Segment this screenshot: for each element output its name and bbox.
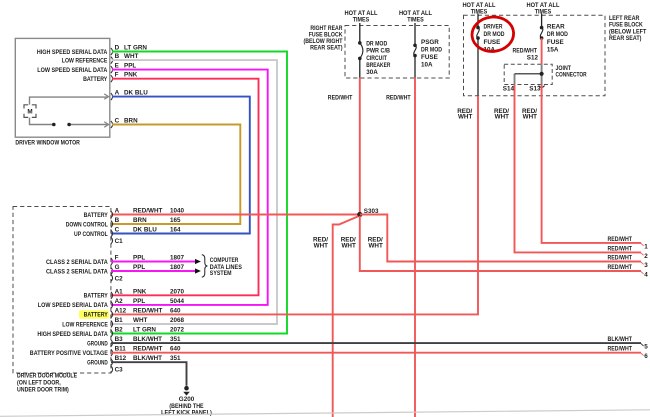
svg-text:DR MOD: DR MOD	[421, 46, 442, 53]
node S13	[529, 86, 544, 93]
pin G (PPL 1807) of driver door module	[46, 264, 185, 275]
wire LT GRN, motor pin D to module pin B2	[111, 52, 287, 334]
label RED/WHT row 6 at page edge	[608, 346, 649, 360]
svg-text:PPL: PPL	[133, 264, 145, 271]
pin B (BRN 165) of driver door module	[66, 217, 181, 228]
wire RED/WHT driver fuse down then left to module pin A12	[111, 96, 478, 315]
motor M1	[24, 105, 36, 118]
svg-text:REAR SEAT): REAR SEAT)	[609, 35, 641, 42]
wire RED/WHT psgr fuse down off page	[414, 78, 416, 417]
svg-text:DRIVER: DRIVER	[484, 24, 503, 31]
svg-text:DOWN CONTROL: DOWN CONTROL	[66, 221, 108, 228]
svg-text:DK BLU: DK BLU	[133, 227, 157, 234]
wire PPL pin G to computer data lines	[111, 268, 201, 273]
svg-text:PWR C/B: PWR C/B	[366, 48, 390, 55]
svg-text:UNDER DOOR TRIM): UNDER DOOR TRIM)	[17, 387, 69, 394]
svg-text:RED/WHT: RED/WHT	[386, 95, 411, 102]
node HOT AT ALL TIMES (driver fuse feed)	[462, 2, 495, 16]
svg-text:RED/WHT: RED/WHT	[133, 208, 163, 215]
svg-text:CIRCUIT: CIRCUIT	[366, 55, 387, 62]
driver window motor box	[15, 38, 110, 146]
svg-text:C2: C2	[115, 275, 124, 282]
svg-text:WHT: WHT	[368, 243, 382, 250]
svg-text:PPL: PPL	[133, 298, 145, 305]
svg-text:S14: S14	[503, 86, 515, 93]
joint connector box	[504, 64, 587, 84]
svg-text:C3: C3	[115, 367, 124, 374]
svg-text:B: B	[115, 217, 120, 224]
svg-text:B: B	[115, 53, 120, 60]
svg-text:PNK: PNK	[124, 72, 138, 79]
svg-text:DR MOD: DR MOD	[547, 31, 568, 38]
svg-text:PPL: PPL	[133, 255, 145, 262]
svg-text:DRIVER WINDOW MOTOR: DRIVER WINDOW MOTOR	[15, 140, 80, 147]
svg-text:RED/WHT: RED/WHT	[608, 255, 633, 262]
svg-text:5044: 5044	[170, 298, 185, 305]
svg-text:BATTERY: BATTERY	[83, 76, 108, 83]
splice S303	[357, 208, 379, 217]
svg-text:TIMES: TIMES	[407, 17, 424, 24]
svg-text:LOW SPEED SERIAL DATA: LOW SPEED SERIAL DATA	[38, 302, 108, 309]
svg-text:30A: 30A	[366, 69, 378, 76]
svg-text:6: 6	[644, 353, 648, 360]
svg-text:351: 351	[170, 355, 181, 362]
pin A1 (PNK 2070) of driver door module	[84, 288, 185, 299]
pin E (PPL) of driver window motor	[111, 63, 136, 74]
svg-text:REAR SEAT): REAR SEAT)	[310, 44, 342, 51]
svg-text:164: 164	[170, 227, 181, 234]
wire DK BLU, motor pin A to module pin C	[111, 97, 250, 234]
svg-text:LT GRN: LT GRN	[133, 327, 156, 334]
wire RED/WHT circuit breaker down to splice S303	[359, 78, 361, 214]
svg-text:RED/WHT: RED/WHT	[328, 95, 353, 102]
wire RED/WHT S14 leg to page edge row 2	[515, 85, 642, 253]
svg-text:B3: B3	[115, 336, 124, 343]
svg-text:BLK/WHT: BLK/WHT	[133, 336, 162, 343]
svg-text:C: C	[115, 118, 120, 125]
pin B3 (BLK/WHT 351) of driver door module	[87, 336, 181, 347]
svg-text:RED/WHT: RED/WHT	[513, 48, 538, 55]
svg-text:B12: B12	[115, 355, 127, 362]
label RED/WHT under S14	[494, 108, 509, 121]
svg-text:FUSE: FUSE	[421, 54, 438, 61]
svg-text:HIGH SPEED SERIAL DATA: HIGH SPEED SERIAL DATA	[37, 49, 108, 56]
pin C (BRN) of driver window motor	[111, 118, 138, 129]
svg-text:TIMES: TIMES	[471, 9, 488, 16]
svg-text:HIGH SPEED SERIAL DATA: HIGH SPEED SERIAL DATA	[37, 331, 108, 338]
svg-text:G: G	[115, 264, 120, 271]
label RED/WHT row 1 at page edge	[608, 236, 649, 250]
svg-text:BATTERY POSITIVE VOLTAGE: BATTERY POSITIVE VOLTAGE	[30, 350, 108, 357]
svg-text:RED/WHT: RED/WHT	[608, 346, 633, 353]
svg-text:2070: 2070	[170, 288, 185, 295]
svg-text:F: F	[115, 255, 119, 262]
label RED/WHT row 3 at page edge	[608, 255, 649, 269]
wire BLK/WHT pin B12 to ground G200	[111, 362, 187, 386]
svg-text:B2: B2	[115, 327, 124, 334]
node HOT AT ALL TIMES (rear fuse feed)	[526, 2, 559, 16]
svg-text:RED/WHT: RED/WHT	[608, 245, 633, 252]
svg-text:WHT: WHT	[523, 114, 537, 121]
pin A12 (RED/WHT 640) of driver door module	[79, 307, 181, 318]
svg-text:LOW REFERENCE: LOW REFERENCE	[62, 57, 108, 64]
svg-text:A12: A12	[115, 307, 127, 314]
wire RED/WHT S13 leg to page edge row 1	[542, 85, 641, 243]
svg-text:TIMES: TIMES	[353, 17, 370, 24]
svg-text:DR MOD: DR MOD	[366, 41, 387, 48]
right rear fuse block box	[304, 25, 450, 78]
svg-text:FUSE: FUSE	[484, 39, 501, 46]
svg-text:F: F	[115, 72, 119, 79]
node HOT AT ALL TIMES (psgr fuse feed)	[399, 10, 432, 24]
wire PPL pin F to computer data lines	[111, 259, 201, 264]
svg-text:DR MOD: DR MOD	[484, 31, 505, 38]
label RED/WHT under S13	[522, 108, 537, 121]
svg-text:1807: 1807	[170, 264, 185, 271]
node COMPUTER DATA LINES SYSTEM	[202, 255, 242, 278]
pin B12 (BLK/WHT 351) of driver door module	[87, 355, 181, 366]
wire RED/WHT S303 branch down-left off page	[333, 216, 359, 417]
svg-text:FUSE: FUSE	[547, 39, 564, 46]
svg-text:5: 5	[644, 344, 648, 351]
wire BRN, motor pin C to module pin B	[111, 125, 240, 225]
pin A (DK BLU) of driver window motor	[111, 90, 148, 101]
svg-text:LT GRN: LT GRN	[124, 45, 147, 52]
svg-text:1: 1	[644, 243, 648, 250]
wire RED/WHT S303 branch to page edge row 3	[360, 215, 641, 262]
svg-text:REAR: REAR	[547, 24, 565, 31]
pin C (DK BLU 164) of driver door module	[74, 227, 181, 238]
svg-text:15A: 15A	[547, 46, 559, 53]
svg-text:BATTERY: BATTERY	[84, 293, 109, 300]
svg-text:B11: B11	[115, 346, 127, 353]
label RED/WHT row 2 at page edge	[608, 245, 649, 259]
svg-text:BLK/WHT: BLK/WHT	[133, 355, 162, 362]
left rear fuse block box	[464, 15, 647, 96]
svg-text:1040: 1040	[170, 208, 185, 215]
fuse REAR DR MOD 15A	[540, 14, 568, 54]
svg-text:PPL: PPL	[124, 63, 136, 70]
svg-text:PNK: PNK	[133, 288, 147, 295]
wire BLK/WHT pin B3 to page edge row 5	[111, 342, 641, 344]
svg-text:A: A	[115, 208, 120, 215]
wire RED/WHT S303 branch to page edge row 4	[360, 216, 641, 271]
svg-text:WHT: WHT	[133, 317, 147, 324]
svg-text:BATTERY: BATTERY	[84, 312, 109, 319]
svg-text:LOW SPEED SERIAL DATA: LOW SPEED SERIAL DATA	[37, 67, 107, 74]
pin A2 (PPL 5044) of driver door module	[38, 298, 185, 309]
connector C2 of driver door module	[111, 275, 123, 283]
pin B11 (RED/WHT 640) of driver door module	[30, 346, 181, 357]
label RED/WHT on branch x333	[313, 237, 328, 250]
svg-text:RED/WHT: RED/WHT	[608, 236, 633, 243]
svg-text:D: D	[115, 45, 120, 52]
svg-text:BATTERY: BATTERY	[84, 212, 109, 219]
svg-text:2068: 2068	[170, 317, 185, 324]
svg-text:GROUND: GROUND	[87, 340, 108, 347]
svg-text:BRN: BRN	[133, 217, 147, 224]
svg-text:RED/WHT: RED/WHT	[608, 264, 633, 271]
svg-text:1807: 1807	[170, 255, 185, 262]
driver door module box	[13, 207, 111, 394]
svg-text:WHT: WHT	[495, 114, 509, 121]
svg-text:A2: A2	[115, 298, 124, 305]
svg-text:BREAKER: BREAKER	[366, 62, 391, 69]
pin F (PNK) of driver window motor	[111, 72, 138, 83]
svg-text:BLK/WHT: BLK/WHT	[608, 336, 633, 343]
svg-text:165: 165	[170, 217, 181, 224]
svg-text:4: 4	[644, 271, 648, 278]
label RED/WHT row 4 at page edge	[608, 264, 649, 278]
label RED/WHT on branch x360	[341, 237, 356, 250]
svg-text:M: M	[27, 109, 32, 116]
pin A (RED/WHT 1040) of driver door module	[84, 208, 185, 219]
svg-text:WHT: WHT	[458, 114, 472, 121]
joint connector internal bus and junction	[515, 64, 544, 84]
svg-text:10A: 10A	[421, 62, 433, 69]
svg-text:WHT: WHT	[124, 53, 138, 60]
svg-text:2: 2	[644, 253, 648, 260]
svg-text:S12: S12	[527, 55, 539, 62]
svg-text:CLASS 2 SERIAL DATA: CLASS 2 SERIAL DATA	[46, 259, 108, 266]
pin B (WHT) of driver window motor	[111, 53, 139, 64]
page edge line	[0, 410, 650, 417]
svg-text:C1: C1	[115, 238, 124, 245]
connector C1 of driver door module	[111, 237, 123, 245]
svg-text:SYSTEM: SYSTEM	[210, 270, 232, 277]
wire RED/WHT module pin A to splice S303	[111, 214, 359, 216]
svg-text:BRN: BRN	[124, 118, 138, 125]
svg-text:PSGR: PSGR	[421, 39, 439, 46]
svg-text:640: 640	[170, 346, 181, 353]
label BLK/WHT row 5 at page edge	[608, 336, 649, 350]
circuit breaker DR MOD PWR C/B 30A	[358, 23, 391, 78]
wire RED/WHT rear fuse to joint connector, splice S12	[513, 38, 542, 64]
label RED/WHT under driver fuse	[457, 108, 472, 121]
svg-text:(ON LEFT DOOR,: (ON LEFT DOOR,	[17, 380, 61, 387]
svg-text:WHT: WHT	[341, 243, 355, 250]
svg-text:B1: B1	[115, 317, 124, 324]
highlight ellipse around driver fuse	[470, 15, 515, 54]
svg-text:WHT: WHT	[314, 243, 328, 250]
svg-text:640: 640	[170, 307, 181, 314]
fuse DRIVER DR MOD 10A	[476, 14, 505, 96]
svg-text:LEFT KICK PANEL): LEFT KICK PANEL)	[161, 409, 212, 416]
svg-text:A1: A1	[115, 288, 124, 295]
svg-text:E: E	[115, 63, 119, 70]
pin F (PPL 1807) of driver door module	[46, 255, 185, 266]
connector C3 of driver door module	[111, 366, 123, 374]
fuse PSGR DR MOD 10A	[413, 23, 442, 78]
pin B2 (LT GRN 2072) of driver door module	[37, 327, 184, 338]
wire RED/WHT pin B11 to page edge row 6	[111, 352, 641, 354]
pin D (LT GRN) of driver window motor	[111, 45, 148, 56]
svg-text:3: 3	[644, 262, 648, 269]
svg-text:C: C	[115, 227, 120, 234]
svg-text:RED/WHT: RED/WHT	[133, 307, 163, 314]
svg-text:A: A	[115, 90, 120, 97]
svg-text:TIMES: TIMES	[535, 9, 552, 16]
wire motor armature to pin C with splice dots	[30, 118, 109, 128]
node HOT AT ALL TIMES (circuit breaker feed)	[344, 10, 377, 24]
svg-text:DK BLU: DK BLU	[124, 90, 148, 97]
wire PNK, motor pin F to module pin A1	[111, 79, 259, 296]
svg-text:2072: 2072	[170, 327, 185, 334]
svg-text:CONNECTOR: CONNECTOR	[556, 72, 587, 79]
svg-text:GROUND: GROUND	[87, 360, 108, 367]
wire PPL, motor pin E to module pin A2	[111, 70, 268, 305]
pin B1 (WHT 2068) of driver door module	[62, 317, 184, 328]
ground G200	[161, 386, 212, 416]
svg-text:LOW REFERENCE: LOW REFERENCE	[62, 321, 108, 328]
label RED/WHT on branch x387	[368, 237, 383, 250]
svg-text:RED/WHT: RED/WHT	[133, 346, 163, 353]
wire WHT, motor pin B to module pin B1	[111, 60, 277, 324]
wire motor armature to pin A	[30, 94, 109, 105]
svg-text:UP CONTROL: UP CONTROL	[74, 231, 108, 238]
svg-text:CLASS 2 SERIAL DATA: CLASS 2 SERIAL DATA	[46, 268, 108, 275]
svg-text:351: 351	[170, 336, 181, 343]
